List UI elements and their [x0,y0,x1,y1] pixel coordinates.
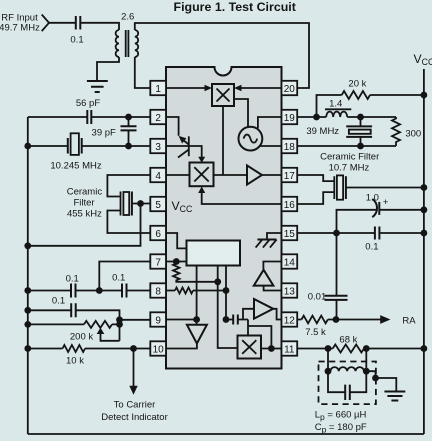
svg-text:3: 3 [155,142,161,153]
pin 9 box [150,312,166,326]
mixer U1c second mixer [190,163,214,187]
capacitor 1.0 electrolytic [372,199,379,217]
svg-text:0.01: 0.01 [308,292,327,303]
mixer U1a first mixer [212,84,234,106]
oscillator U1b local oscillator [239,127,263,151]
wire amp1 to pin 17 [262,174,282,176]
pin 17 box [282,168,298,182]
pin 11 box [282,341,298,355]
svg-text:10.245 MHz: 10.245 MHz [50,161,101,172]
resistor 68 k [333,345,364,353]
svg-text:20 k: 20 k [348,79,366,90]
junction internal B [214,278,221,285]
junction 39pF top [125,114,132,121]
junction rail pin5 gnd [24,242,31,249]
junction pin10 arrow [130,345,137,352]
svg-text:8: 8 [155,286,161,297]
wire coil left end [328,370,330,372]
junction VCC 1.0 [421,206,428,213]
wire pin 7 to block [166,261,187,263]
pin 4 box [150,168,166,182]
junction rail 10k [24,345,31,352]
junction internal C pin8 [223,287,230,294]
svg-text:455 kHz: 455 kHz [67,209,102,220]
pin 6 box [150,226,166,240]
pin 16 box [282,197,298,211]
mixer U1h third mixer [238,336,262,359]
wire FL2 output to VCC rail [346,187,424,189]
wire block output A [196,266,198,325]
ground below transformer [87,81,108,92]
pin 7 box [150,254,166,268]
junction tank exit [372,375,379,382]
svg-text:6: 6 [155,229,161,240]
wire pin 4 to filter FL1 [107,175,150,197]
junction pin7 pin8 caps [96,287,103,294]
pin 3 box [150,139,166,153]
wire pin 14 to triangle [263,262,281,271]
junction pin15 0.01 [333,230,340,237]
wire FL1 lower terminal to pin 6 [107,211,150,234]
junction pin9 node upper [116,316,123,323]
junction rail cap 0.1 [24,307,31,314]
capacitor Cp tank [345,371,366,400]
IC U1 body [166,67,282,369]
wire pin 3 line [28,145,151,147]
wire pin 2 line [28,116,151,118]
arrow into mixer2 bottom [198,186,205,193]
wire secondary bottom to pin 1 [135,57,151,88]
pin 2 box [150,110,166,124]
transformer T1 secondary winding [135,30,138,57]
pin 13 box [282,283,298,297]
pin 15 box [282,226,298,240]
wire pin 8 line [28,290,151,292]
ground right bottom [384,392,405,401]
svg-text:2: 2 [155,113,161,124]
junction pin5 node [137,200,144,207]
wire tank right branch [365,349,367,372]
svg-text:0.1: 0.1 [52,296,65,307]
arrow into mixer2 top [198,157,205,163]
wire RA arrow [336,315,391,324]
pin numbers left [153,84,165,356]
svg-text:Lp = 660 µH: Lp = 660 µH [315,410,367,423]
wire pin 12 line [297,319,336,321]
wire 1.0 cap line [337,210,424,233]
junction 39pF bottom [125,143,132,150]
svg-text:9: 9 [155,315,161,326]
junction rail pin8 [24,287,31,294]
svg-text:13: 13 [284,286,296,297]
capacitor 39 pF [121,117,137,146]
svg-text:1.4: 1.4 [329,98,342,109]
arrow into mixer1 left [205,85,213,91]
svg-text:0.1: 0.1 [66,274,79,285]
transformer T1 primary winding [116,30,119,57]
inductor Lp tank coil [330,367,364,371]
block U1e quad detector [187,241,241,266]
amplifier U1g data amp [254,299,273,319]
pin numbers right [284,84,296,356]
wire pin 20 to mixer 1 [242,87,282,89]
wire mixer2 to amp1 [214,174,248,176]
wire pin 1 to mixer 1 [166,87,205,89]
svg-text:1: 1 [155,84,161,95]
svg-text:7: 7 [155,257,161,268]
svg-text:5: 5 [155,200,161,211]
wire pin 15 line [297,232,424,234]
wire pin 17 to filter FL2 [297,175,334,181]
pin 5 box [150,197,166,211]
junction rail 200k [24,321,31,328]
junction VCC 68k [421,345,428,352]
svg-text:12: 12 [284,315,296,326]
wire pin 2 to transistor [166,117,179,136]
svg-text:2.6: 2.6 [121,12,134,23]
resistor 7.5 k [302,316,328,324]
wire FL1 output to pin 5 [132,203,150,205]
capacitor 56 pF [87,110,91,124]
wire primary bottom to ground [97,57,119,81]
pin 14 box [282,254,298,268]
junction internal pin11 [268,345,275,352]
junction coil right [363,368,370,375]
svg-text:10: 10 [153,344,165,355]
transformer T1 core [126,30,129,57]
buffer U1f inverted triangle [166,325,207,349]
svg-text:To Carrier: To Carrier [114,400,156,411]
junction pin11 right [363,345,370,352]
wire C1 to transformer primary [80,23,119,30]
svg-text:Cp = 180 pF: Cp = 180 pF [315,422,367,435]
wire pin 18 to oscillator [260,145,282,147]
resistor internal pin8 [175,288,193,294]
wire pin 16 to filter FL2 [297,192,334,204]
pin 12 box [282,312,298,326]
wire 20k branch [317,95,424,117]
wire pin 16 to mixer2 bottom [202,193,282,204]
resistor 20 k [342,91,370,99]
wire 0.1 cap line to pin 9 node [28,310,120,341]
wire pin 18 line [297,145,396,147]
svg-text:Figure 1. Test Circuit: Figure 1. Test Circuit [174,0,296,14]
capacitor C1 0.1 [76,16,81,30]
wire pin 11 line [297,348,424,350]
junction VCC filter [421,184,428,191]
VCC rail wire [423,69,425,434]
wire mixer3 to pin 11 [261,348,282,350]
wire pin 8 internal [166,290,226,292]
svg-text:Ceramic Filter: Ceramic Filter [320,152,379,163]
svg-text:200 k: 200 k [70,332,93,343]
wire pin 10 line [28,348,151,350]
junction pin12 0.01 [333,316,340,323]
junction VCC 0.1 [421,230,428,237]
capacitor 0.1 pin9 [71,303,76,317]
wire block output B [218,266,238,349]
chassis ground pin 15 [256,233,282,248]
pin boxes right [282,81,298,356]
pin 1 box [150,81,166,95]
svg-text:0.1: 0.1 [70,35,83,46]
arrow into mixer1 right [234,85,242,91]
crystal Y1 10.245 MHz [68,133,82,155]
wire 200k line [28,323,120,325]
wire pin 3 to mixer 2 [166,146,202,157]
wire pin 19 to oscillator [258,117,282,128]
pin 18 box [282,139,298,153]
svg-text:7.5 k: 7.5 k [305,327,326,338]
svg-text:19: 19 [284,113,296,124]
left rail wire [27,117,29,434]
wire pin 6 to block [166,233,187,248]
wire pin 19 line [297,116,396,118]
junction coil left [325,368,332,375]
capacitor 0.1 pin15 [375,227,380,240]
wire block output C [225,266,227,320]
junction crystal top [357,114,364,121]
wire triangle to pin 13 [264,286,282,291]
svg-text:300: 300 [405,129,421,140]
pin boxes left [150,81,166,356]
resistor 300 [392,117,400,146]
pin 8 box [150,283,166,297]
ceramic filter FL2 10.7 MHz [334,175,346,199]
wire cap to amp2 input [243,309,254,320]
svg-text:+: + [383,197,389,208]
wire LO to mixer1 [234,99,248,127]
wire carrier detect arrow [129,349,137,395]
junction pin19 20k [313,114,320,121]
pin 10 box [150,341,166,355]
svg-text:18: 18 [284,142,296,153]
capacitor 0.01 [325,233,348,320]
svg-text:11: 11 [284,344,295,355]
transistor Q1 [178,136,189,158]
amplifier U1d IF amp [247,165,262,184]
wire tank left branch [328,349,345,393]
wire mixer1 output down [222,106,224,175]
capacitor 0.1 pin8 right [122,284,127,298]
svg-text:10.7 MHz: 10.7 MHz [329,163,370,174]
pin 20 box [282,81,298,95]
svg-text:RA: RA [402,316,416,327]
junction internal pin7 [173,258,180,265]
crystal Y2 39 MHz [346,117,372,146]
resistor 10 k [63,345,86,352]
wire RF input to C1 [49,22,76,24]
wire pin 7 external jog [99,262,150,291]
wire secondary top to pin 20 loop [135,23,309,88]
capacitor 0.1 pin8 left [71,284,76,298]
svg-text:20: 20 [284,84,296,95]
svg-text:16: 16 [284,200,296,211]
svg-text:14: 14 [284,257,296,268]
pin 19 box [282,110,298,124]
capacitor internal [226,315,248,325]
wire pin 9 internal [166,319,197,321]
wire amp2 to pin 12 [273,309,281,320]
svg-text:39 pF: 39 pF [92,127,116,138]
wire pin 9 line [120,319,151,321]
junction pin9 node lower [116,321,123,328]
junction internal C cap [223,316,230,323]
junction rail pin3 [24,143,31,150]
svg-text:4: 4 [155,171,161,182]
svg-text:17: 17 [284,171,296,182]
wire feedback to mixer3 [248,320,271,349]
svg-text:Filter: Filter [73,198,94,209]
wire pin 4 to mixer 2 [166,174,190,176]
junction pin11 left [325,345,332,352]
svg-text:39 MHz: 39 MHz [306,126,339,137]
ceramic filter FL1 455 kHz [121,192,132,216]
wire pin 5 node down to rail [28,204,141,246]
bottom rail wire [28,433,424,435]
potentiometer 200 k [84,321,120,341]
svg-text:0.1: 0.1 [112,273,125,284]
buffer U1i triangle up [254,270,274,286]
dashed box tank [319,362,376,405]
svg-text:Detect Indicator: Detect Indicator [101,412,168,423]
inductor L1 1.4 [325,109,351,117]
junction crystal bottom [357,143,364,150]
svg-text:56 pF: 56 pF [76,98,100,109]
RF input connector [42,15,49,32]
svg-text:0.1: 0.1 [365,242,378,253]
svg-text:Ceramic: Ceramic [67,187,103,198]
svg-text:10 k: 10 k [66,356,84,367]
svg-text:15: 15 [284,229,296,240]
resistor internal pin7 [173,262,218,282]
svg-text:49.7 MHz: 49.7 MHz [0,23,40,34]
wire tank to ground [366,371,396,391]
svg-text:68 k: 68 k [339,335,357,346]
junction VCC 20k [421,92,428,99]
svg-text:1.0: 1.0 [366,192,379,203]
junction internal A pin9 [193,316,200,323]
